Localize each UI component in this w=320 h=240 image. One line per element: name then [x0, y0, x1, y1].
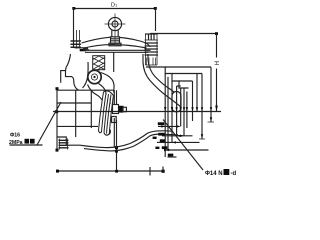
body bowl inner curve [80, 131, 172, 148]
bracket to pin verticals [97, 70, 100, 72]
svg-text:-d: -d [231, 171, 237, 177]
body shoulder inner curve [83, 62, 89, 88]
body right wall outer [143, 54, 181, 107]
disc top cap [104, 91, 114, 96]
extension line bolt top to H dim [150, 33, 217, 35]
body bowl outer curve [84, 134, 178, 151]
cover lower edge [83, 45, 147, 49]
seat ring verticals [114, 90, 116, 104]
bolt hole slot [172, 92, 181, 113]
cover right bolt [145, 34, 159, 65]
hinge arm outer [101, 73, 115, 93]
svg-text:Φ14 N: Φ14 N [205, 171, 223, 177]
centerline arrows cluster [164, 107, 212, 112]
disc nut stack [110, 98, 126, 123]
boss crosshairs [105, 14, 126, 45]
extension line left of D1 [73, 9, 75, 48]
dim D1 end dots [72, 7, 157, 10]
dim row arrows [161, 117, 212, 151]
stem below boss [112, 30, 118, 36]
leader line left label [37, 102, 61, 145]
leader line to bolt hole [163, 120, 203, 171]
neck left line [66, 54, 71, 71]
bore wall under pin [88, 85, 102, 100]
centerline [53, 111, 221, 113]
top boss circle [108, 17, 121, 30]
seat front vertical [90, 90, 92, 128]
bonnet cover top edge [82, 37, 112, 43]
hinge arm inner [99, 84, 107, 95]
body right wall inner [148, 54, 174, 92]
bore bottom line [57, 125, 98, 127]
outlet flange staircase [146, 67, 184, 88]
svg-text:H: H [215, 61, 221, 65]
left flange top edge / bore top [57, 89, 114, 91]
svg-text:2MPa: 2MPa [9, 140, 23, 146]
dimension line D1 top [74, 8, 156, 10]
stem nut [109, 37, 121, 46]
dimension line H vertical [216, 34, 218, 112]
left flange bottom steps [57, 137, 80, 145]
cover left edge dark bar [83, 49, 88, 50]
bottom-left bolt [59, 139, 69, 150]
tiny row labels [153, 122, 174, 156]
outlet extension verticals [165, 67, 211, 157]
hinge bracket hatched [93, 56, 105, 70]
cover joint lines [83, 49, 151, 51]
H arrowhead [215, 106, 218, 112]
left flange back [75, 90, 77, 137]
extension line right of D1 down to bolt [155, 9, 157, 32]
disc bottom arcs [99, 131, 102, 133]
body neck ear left [61, 71, 79, 90]
label right bottom [205, 169, 236, 177]
bottom dimension line [58, 170, 164, 172]
left flange face [56, 89, 58, 151]
hinge pin [88, 70, 101, 83]
dim rows bottom right [158, 125, 177, 127]
disc clapper lines [99, 92, 114, 134]
cover left bolt [71, 30, 86, 51]
bottom dim tick [149, 167, 151, 176]
outlet extension h-lines [165, 67, 211, 88]
svg-text:Φ16: Φ16 [10, 133, 20, 139]
bracket right vertical [113, 52, 115, 72]
label left line2 [9, 139, 35, 146]
